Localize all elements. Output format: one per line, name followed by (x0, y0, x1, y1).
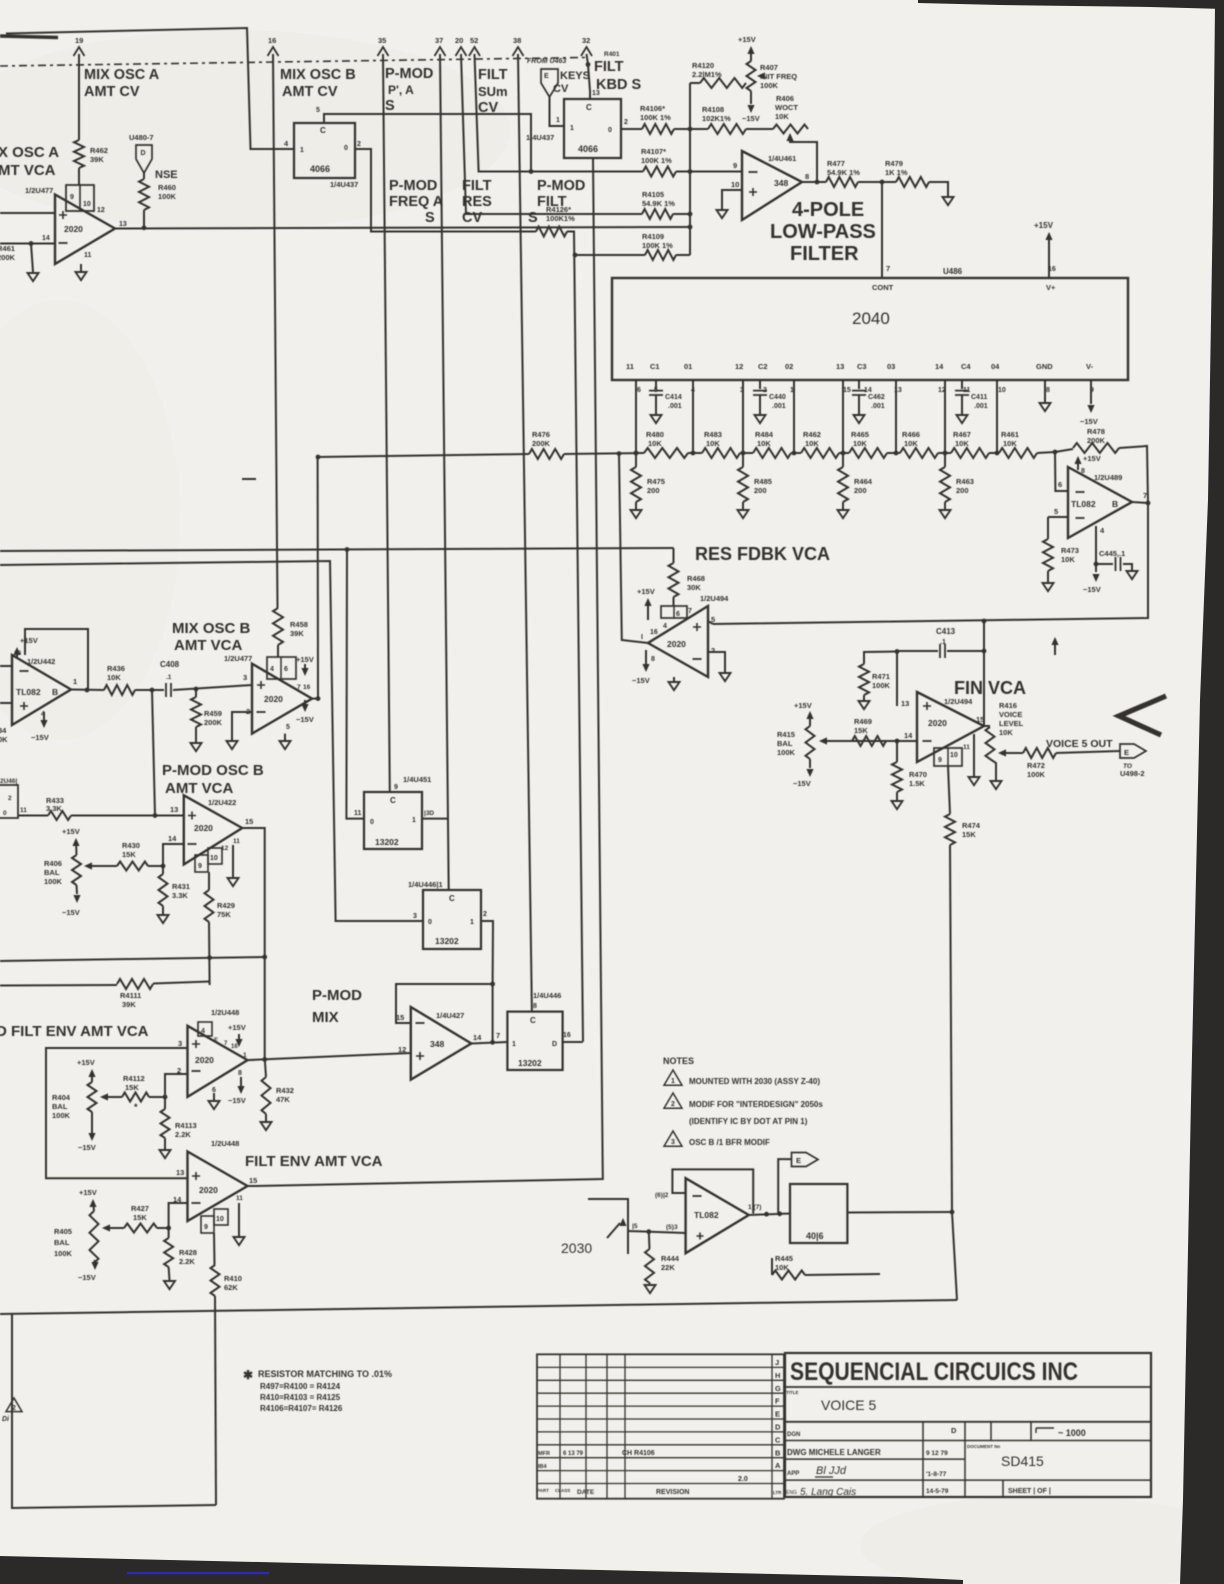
wire ladder (564, 453, 644, 454)
wire 2040 pin drop (635, 380, 637, 453)
wire U448a output (248, 1053, 411, 1060)
svg-text:16: 16 (303, 684, 311, 691)
svg-text:R427: R427 (131, 1204, 149, 1213)
note 3 triangle (664, 1131, 682, 1146)
svg-text:R4120: R4120 (692, 61, 714, 70)
resistor R462 10K (801, 448, 839, 458)
svg-text:100K 1%: 100K 1% (642, 241, 673, 250)
svg-text:R406: R406 (776, 94, 794, 103)
svg-text:13: 13 (119, 221, 127, 228)
summing bus vertical (689, 83, 691, 255)
svg-text:P-MOD: P-MOD (385, 66, 433, 82)
wire bus line 2 (0, 561, 423, 921)
wire 2040 pin drop (742, 380, 744, 453)
wire R474 to frame (952, 1212, 957, 1300)
svg-text:B: B (775, 1448, 781, 1457)
svg-text:RES FDBK VCA: RES FDBK VCA (695, 544, 830, 564)
svg-text:5: 5 (286, 724, 290, 731)
svg-text:10K: 10K (955, 439, 969, 448)
svg-text:10K: 10K (853, 439, 867, 448)
wire to flag E2 (778, 1159, 791, 1214)
svg-text:10K: 10K (999, 728, 1013, 737)
op-amp U422 pin boxes (195, 855, 208, 872)
svg-text:12: 12 (735, 362, 743, 371)
resistor R464 200 (842, 453, 844, 467)
resistor R466 10K (900, 448, 938, 458)
svg-text:C: C (449, 894, 455, 903)
svg-text:2.2K: 2.2K (175, 1130, 191, 1139)
svg-text:13: 13 (592, 90, 600, 97)
svg-text:TITLE: TITLE (786, 1390, 799, 1395)
svg-text:H: H (775, 1371, 780, 1380)
svg-text:200: 200 (647, 486, 660, 495)
svg-text:8: 8 (805, 172, 809, 181)
svg-text:02: 02 (785, 362, 793, 371)
capacitor C413 (897, 650, 938, 652)
svg-text:10K: 10K (805, 439, 819, 448)
wire WOCT wiper to output node (786, 133, 793, 141)
svg-text:9 12 79: 9 12 79 (926, 1450, 948, 1457)
svg-text:U480-7: U480-7 (129, 133, 154, 142)
wire R433 to U422 (71, 815, 184, 817)
svg-text:AMT VCA: AMT VCA (165, 780, 233, 797)
power -15V at R406 (76, 885, 79, 894)
wire ladder node (839, 452, 849, 454)
svg-text:R4113: R4113 (175, 1121, 197, 1130)
svg-text:WOCT: WOCT (775, 103, 798, 112)
wire TL082b feedback (672, 1169, 753, 1213)
svg-text:3.3K: 3.3K (46, 804, 62, 813)
svg-text:15K: 15K (133, 1213, 147, 1222)
svg-text:C414: C414 (665, 394, 682, 401)
svg-text:12: 12 (398, 1045, 406, 1054)
resistor R474 15K (945, 814, 955, 845)
svg-text:1: 1 (73, 677, 77, 686)
wire R406 wiper (95, 865, 117, 867)
svg-text:2U46|: 2U46| (0, 778, 18, 785)
svg-text:10K: 10K (648, 439, 662, 448)
svg-text:15K: 15K (125, 1083, 139, 1092)
wire MIX OSC B AMT CV vertical (273, 54, 278, 608)
svg-text:R463: R463 (956, 477, 974, 486)
svg-text:FILT: FILT (478, 67, 508, 83)
svg-text:CH R4106: CH R4106 (622, 1450, 655, 1457)
resistor R433 3.3K (48, 811, 71, 820)
svg-text:R416: R416 (999, 701, 1017, 710)
svg-text:LTR: LTR (773, 1490, 782, 1495)
svg-text:V+: V+ (1046, 283, 1056, 292)
wire 4066a output to P-MOD FREQ row (355, 149, 536, 232)
svg-text:MIX OSC B: MIX OSC B (172, 620, 251, 637)
svg-text:DGN: DGN (787, 1432, 800, 1438)
svg-text:VOICE 5 OUT: VOICE 5 OUT (1046, 738, 1113, 750)
svg-text:13: 13 (170, 805, 178, 814)
op-amp U477a 2020 (55, 195, 115, 265)
svg-text:13202: 13202 (375, 837, 399, 847)
junction ladder (792, 451, 797, 456)
resistor R430 15K (117, 862, 148, 871)
op-amp U442 TL082 (12, 655, 71, 725)
wire R429 down (208, 922, 211, 985)
connector pin 37 up-arrow (435, 47, 446, 56)
svg-text:R407: R407 (760, 63, 778, 72)
svg-text:−15V: −15V (228, 1096, 246, 1105)
wire R436 to C408 (135, 689, 164, 691)
wire ladder right node (1037, 452, 1055, 453)
resistor R485 200 (742, 453, 744, 467)
svg-text:12: 12 (221, 845, 229, 852)
resistor R4109 100K (645, 250, 676, 260)
capacitor C411 .001 (961, 380, 963, 389)
svg-text:SEQUENCIAL CIRCUICS INC: SEQUENCIAL CIRCUICS INC (790, 1358, 1078, 1386)
svg-text:BAL: BAL (44, 868, 60, 877)
svg-text:6: 6 (676, 611, 680, 618)
svg-text:200: 200 (854, 486, 867, 495)
wire U494a input from ladder (619, 454, 648, 643)
svg-text:FILT ENV AMT VCA: FILT ENV AMT VCA (245, 1153, 383, 1170)
svg-text:3: 3 (671, 1139, 675, 1146)
svg-text:(5)3: (5)3 (666, 1224, 678, 1231)
svg-text:R405: R405 (54, 1227, 72, 1236)
svg-text:2: 2 (12, 1405, 16, 1412)
svg-text:6 13 79: 6 13 79 (563, 1451, 584, 1457)
wire ladder node (740, 452, 753, 454)
resistor R429 75K (208, 872, 210, 890)
svg-text:FILTER: FILTER (790, 243, 859, 265)
svg-text:100K: 100K (760, 81, 779, 90)
power -15V at R415 (809, 759, 811, 768)
svg-text:R478: R478 (1087, 427, 1105, 436)
connector pin 35 up-arrow (378, 47, 389, 56)
resistor R410 62K (211, 1265, 220, 1296)
wire top-left horizontal feed (6, 28, 294, 149)
svg-text:+15V: +15V (794, 701, 812, 710)
potentiometer R406 WOCT 10K (773, 125, 808, 134)
svg-text:|3D: |3D (424, 810, 434, 817)
svg-text:1/2U448: 1/2U448 (211, 1008, 239, 1017)
resistor R479 1K (896, 177, 929, 187)
svg-text:8: 8 (533, 1003, 537, 1010)
svg-text:DWG MICHELE LANGER: DWG MICHELE LANGER (787, 1448, 881, 1457)
svg-text:04: 04 (991, 362, 1000, 371)
svg-text:C411: C411 (971, 394, 987, 401)
svg-text:TL082: TL082 (1071, 499, 1096, 509)
svg-text:(IDENTIFY IC BY DOT AT PIN 1): (IDENTIFY IC BY DOT AT PIN 1) (689, 1117, 808, 1126)
svg-text:E: E (775, 1410, 780, 1419)
svg-text:+15V: +15V (79, 1188, 97, 1197)
svg-text:8: 8 (1081, 468, 1085, 475)
note 1 triangle (664, 1070, 682, 1085)
wire MIX OSC A AMT CV vertical (78, 54, 80, 140)
wire R410 down to frame (215, 1296, 216, 1505)
ground below U477a (80, 264, 82, 271)
svg-text:1: 1 (512, 1041, 516, 1048)
wire FILT RES CV vertical (461, 54, 642, 214)
svg-text:C2: C2 (758, 362, 768, 371)
capacitor C445 .1 (1096, 563, 1113, 565)
svg-text:NSE: NSE (155, 169, 178, 181)
wire U422 pin14 (163, 844, 184, 866)
wire ladder node (688, 452, 702, 454)
svg-text:P', A: P', A (388, 83, 414, 97)
resistor R4108 102K (708, 124, 746, 134)
wire U477b output (312, 698, 318, 700)
resistor R445 10K (771, 1258, 773, 1275)
resistor R475 200 (635, 453, 637, 467)
svg-text:2: 2 (671, 1101, 675, 1108)
junction C413 node (983, 621, 985, 726)
svg-text:15K: 15K (122, 850, 136, 859)
wire U442 inputs (0, 665, 12, 667)
svg-text:MT VCA: MT VCA (0, 162, 56, 179)
svg-text:R468: R468 (687, 574, 705, 583)
svg-text:R462: R462 (90, 146, 108, 155)
resistor R4120 2.2M (690, 82, 700, 84)
ground below U477b (284, 734, 286, 740)
svg-text:D: D (775, 1423, 781, 1432)
svg-text:100K1%: 100K1% (546, 214, 575, 223)
wire U446b output (563, 1041, 583, 1043)
wire expo ladder left (318, 454, 529, 457)
svg-text:100K: 100K (54, 1249, 73, 1258)
svg-text:6: 6 (284, 666, 288, 673)
wire P-MOD FILT to 13202c output (567, 232, 583, 1042)
scan dark bottom band (0, 1556, 963, 1584)
resistor R4126 100K (536, 227, 567, 237)
svg-text:200K: 200K (204, 718, 223, 727)
wire bottom frame (0, 1300, 957, 1314)
svg-text:R415: R415 (777, 730, 795, 739)
wire R404 wiper (110, 1096, 122, 1098)
svg-text:100K 1%: 100K 1% (640, 113, 671, 122)
svg-text:(6)|2: (6)|2 (655, 1192, 669, 1199)
svg-text:2020: 2020 (264, 694, 283, 704)
connector flag E KEYS CV (541, 69, 558, 97)
svg-text:TL082: TL082 (694, 1210, 719, 1220)
wire pin38 vertical to U446b clock (518, 54, 532, 1012)
svg-text:−15V: −15V (742, 114, 760, 123)
svg-text:1/2U448: 1/2U448 (211, 1139, 239, 1148)
svg-text:9: 9 (70, 194, 74, 201)
op-amp U427 348 (411, 1007, 472, 1080)
svg-text:1/2U442: 1/2U442 (27, 657, 55, 666)
svg-text:R445: R445 (775, 1254, 793, 1263)
svg-text:01: 01 (684, 362, 692, 371)
svg-text:−15V: −15V (793, 779, 811, 788)
svg-text:10K: 10K (107, 673, 121, 682)
wire ladder node (791, 452, 801, 454)
svg-text:13: 13 (836, 362, 844, 371)
resistor R459 200K (195, 689, 197, 697)
svg-text:8: 8 (1046, 387, 1050, 394)
svg-text:+15V: +15V (20, 636, 38, 645)
svg-text:AMT CV: AMT CV (84, 84, 140, 100)
svg-text:R471: R471 (872, 672, 890, 681)
svg-text:S: S (528, 210, 538, 226)
resistor R471 100K (864, 652, 897, 665)
svg-text:I: I (641, 634, 643, 641)
svg-text:MIX: MIX (312, 1009, 339, 1026)
wire U446a output (481, 921, 493, 984)
op-amp U494b 2020 (917, 692, 984, 762)
capacitor C408 (166, 683, 171, 697)
wire R4109 row (575, 254, 645, 256)
IC U446a 13202 (423, 890, 481, 949)
svg-text:|5: |5 (632, 1223, 638, 1230)
svg-text:KEYS: KEYS (560, 70, 590, 82)
svg-text:+15V: +15V (637, 587, 655, 596)
potentiometer R404 BAL 100K (88, 1082, 97, 1112)
svg-text:1: 1 (300, 147, 304, 154)
resistor R480 10K (644, 448, 688, 458)
svg-text:+15V: +15V (62, 827, 80, 836)
svg-text:1/2U422: 1/2U422 (208, 798, 236, 807)
connector pin 20 up-arrow (456, 47, 467, 56)
wire 4066b bottom to FILT ENV out (256, 158, 603, 1186)
wire ladder node (938, 452, 951, 454)
wire sum bus (0, 957, 265, 961)
wire U448b pin14 (169, 1203, 188, 1228)
svg-text:BAL: BAL (52, 1102, 68, 1111)
svg-text:1/4U427: 1/4U427 (436, 1011, 464, 1020)
svg-text:VOICE 5: VOICE 5 (821, 1397, 876, 1413)
svg-text:100K: 100K (44, 877, 63, 886)
svg-text:U486: U486 (943, 267, 963, 276)
resistor R476 200K (529, 449, 564, 459)
wire ladder node (989, 452, 999, 454)
svg-text:37: 37 (435, 36, 443, 45)
svg-text:AMT VCA: AMT VCA (174, 637, 242, 654)
svg-text:MFR: MFR (538, 1451, 550, 1457)
svg-text:C: C (390, 796, 396, 805)
power -15V at 2040 V- (1090, 380, 1092, 404)
svg-text:C462: C462 (868, 394, 885, 401)
svg-text:10: 10 (731, 180, 739, 189)
wire R477 to R479 (858, 181, 896, 183)
svg-text:R464: R464 (854, 477, 873, 486)
svg-text:APP: APP (787, 1471, 799, 1477)
svg-text:3: 3 (413, 913, 417, 920)
svg-text:R428: R428 (179, 1248, 197, 1257)
svg-text:R472: R472 (1027, 761, 1045, 770)
svg-text:C: C (320, 126, 326, 135)
svg-text:200K: 200K (1087, 436, 1106, 445)
resistor R460 100K (143, 173, 145, 179)
svg-text:MIX OSC A: MIX OSC A (84, 67, 160, 83)
svg-text:.1: .1 (940, 639, 946, 646)
resistor R461 10K (999, 448, 1037, 458)
svg-text:U498-2: U498-2 (1120, 769, 1145, 778)
svg-text:0: 0 (344, 145, 348, 152)
svg-text:15: 15 (843, 387, 851, 394)
wire U451 output (422, 818, 449, 820)
svg-text:14: 14 (473, 1033, 482, 1042)
svg-text:P-MOD: P-MOD (537, 178, 585, 194)
svg-text:7: 7 (496, 1031, 500, 1040)
power -15V at R405 (94, 1260, 95, 1263)
svg-text:G: G (775, 1384, 781, 1393)
svg-text:102K1%: 102K1% (702, 114, 731, 123)
svg-text:INIT FREQ: INIT FREQ (760, 72, 797, 81)
svg-text:1/4U437: 1/4U437 (526, 133, 554, 142)
svg-text:16: 16 (563, 1032, 571, 1039)
wire R4107 right (676, 171, 690, 173)
svg-text:6: 6 (637, 387, 641, 394)
wire U461 pin9 input (690, 171, 742, 173)
dashed reference line (0, 58, 585, 67)
ground after R479 (929, 182, 948, 196)
svg-text:R458: R458 (290, 620, 308, 629)
wire U422 pin13 input (18, 815, 48, 817)
svg-text:−15V: −15V (78, 1143, 96, 1152)
svg-text:R484: R484 (755, 430, 774, 439)
svg-text:KBD S: KBD S (596, 77, 641, 93)
svg-text:1: 1 (470, 919, 474, 926)
svg-text:R430: R430 (122, 841, 140, 850)
svg-text:3.3K: 3.3K (172, 891, 188, 900)
svg-text:LOW-PASS: LOW-PASS (770, 221, 876, 243)
svg-text:2020: 2020 (194, 823, 213, 833)
svg-text:348: 348 (774, 178, 788, 188)
page-edge mark top-left (0, 36, 58, 38)
svg-text:52: 52 (470, 36, 478, 45)
svg-text:+15V: +15V (296, 655, 314, 664)
wire 2040 pin drop (842, 380, 844, 453)
svg-text:R480: R480 (646, 430, 664, 439)
svg-text:2.0: 2.0 (738, 1476, 748, 1483)
svg-text:6: 6 (212, 1087, 216, 1094)
power -15V at U477b (301, 704, 308, 712)
wire R4105 right (673, 213, 690, 215)
ground at U477a -input (31, 244, 33, 273)
svg-text:16: 16 (231, 1044, 238, 1050)
svg-text:R444: R444 (661, 1254, 680, 1263)
resistor R4106 100K (642, 124, 674, 134)
wire 2040 pin drop (944, 380, 946, 453)
op-amp U477a pin box (66, 185, 94, 211)
svg-text:MOUNTED WITH 2030 (ASSY Z-40): MOUNTED WITH 2030 (ASSY Z-40) (689, 1077, 820, 1086)
svg-text:R4107*: R4107* (641, 147, 666, 156)
svg-text:R459: R459 (204, 709, 222, 718)
svg-text:R401: R401 (604, 51, 620, 58)
svg-text:B: B (1112, 499, 1118, 509)
svg-text:2.2|M1%: 2.2|M1% (692, 70, 722, 79)
svg-text:R461: R461 (0, 244, 15, 253)
svg-text:E: E (544, 73, 549, 80)
resistor R468 30K (673, 548, 675, 563)
svg-text:D FILT ENV AMT VCA: D FILT ENV AMT VCA (0, 1023, 149, 1040)
wire 2040 pin drop (793, 380, 795, 453)
wire R405 wiper (112, 1227, 124, 1229)
svg-text:C: C (775, 1435, 781, 1444)
svg-text:R483: R483 (704, 430, 722, 439)
svg-text:CLASS: CLASS (555, 1488, 570, 1493)
svg-text:R4109: R4109 (642, 232, 664, 241)
svg-text:Di: Di (2, 1416, 10, 1423)
svg-text:1: 1 (570, 125, 574, 132)
wire FILT SUM CV vertical (475, 54, 644, 172)
svg-text:54.9K 1%: 54.9K 1% (642, 199, 675, 208)
wire U422 output down (242, 828, 265, 1059)
svg-text:R474: R474 (962, 821, 981, 830)
wire R460 to output node (143, 210, 145, 228)
svg-text:4-POLE: 4-POLE (792, 199, 864, 221)
wire U477b pin2 ground (232, 712, 252, 740)
op-amp U489 TL082 (1068, 467, 1132, 538)
svg-text:0: 0 (370, 819, 374, 826)
svg-text:FILT: FILT (594, 59, 624, 75)
svg-text:39K: 39K (290, 629, 304, 638)
